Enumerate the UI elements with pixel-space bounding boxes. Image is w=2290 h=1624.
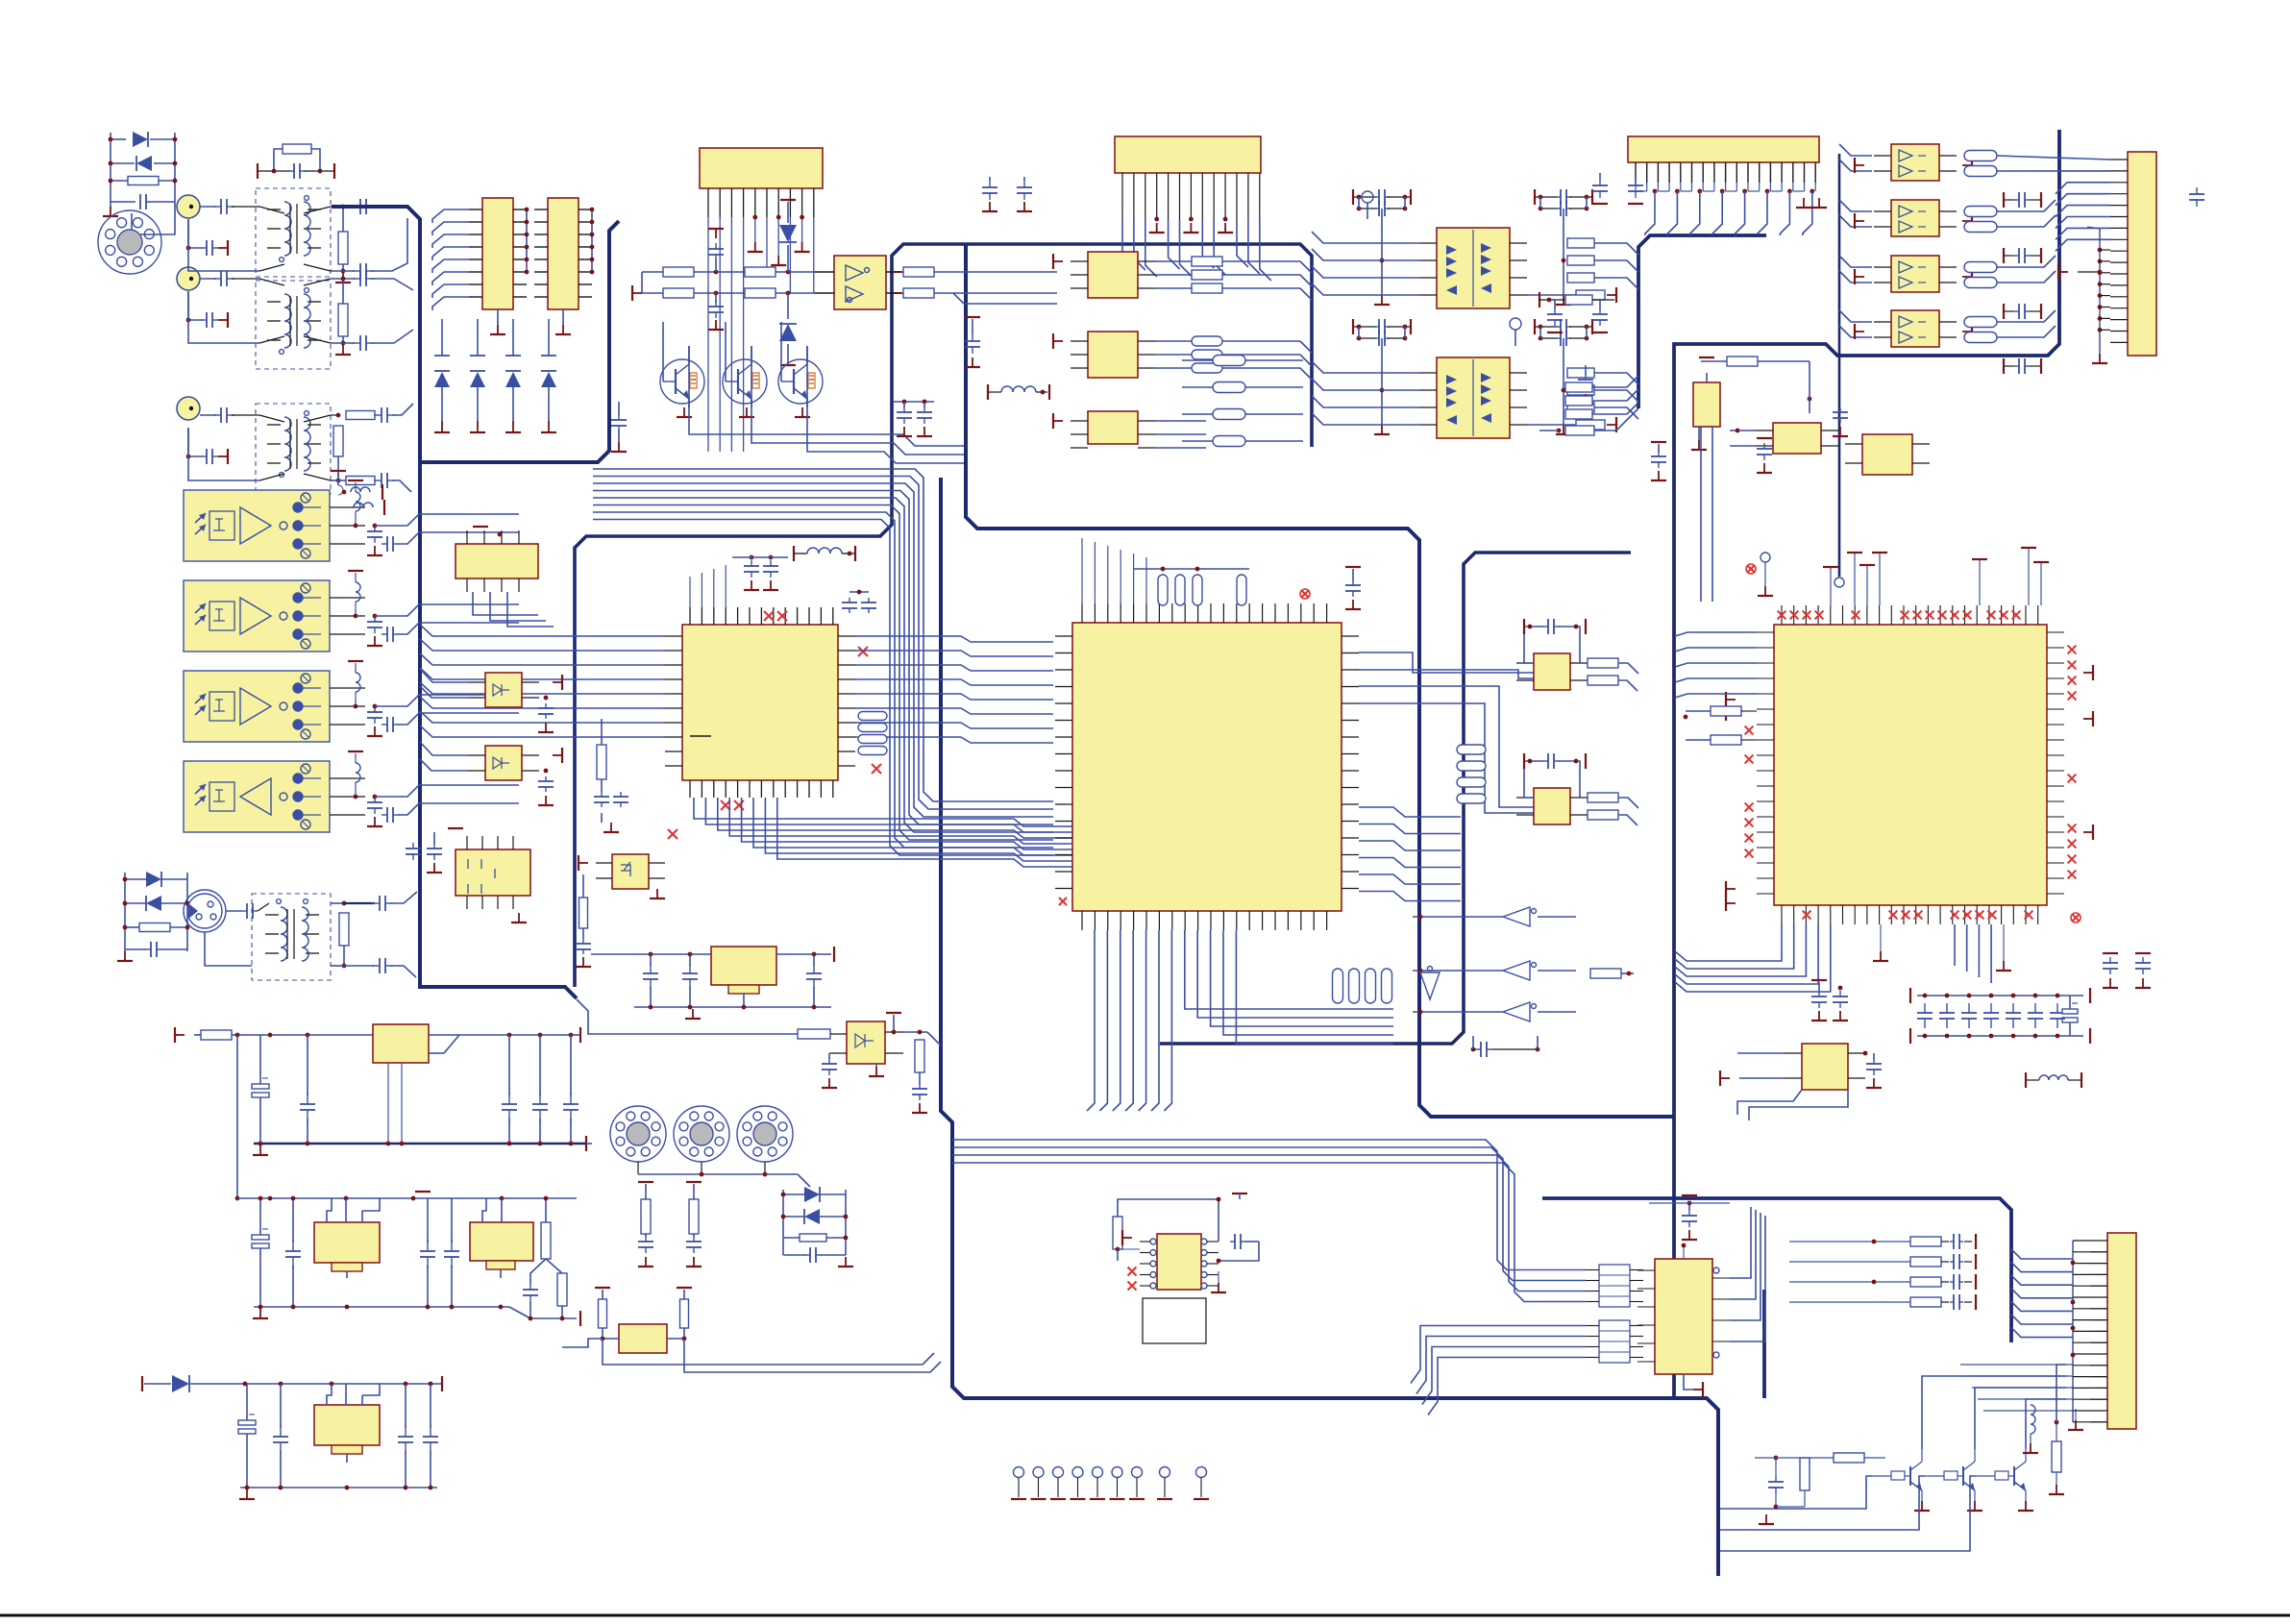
capacitor C13 C14 [732, 555, 788, 590]
optocoupler U16 [1419, 228, 1527, 308]
diode D2 [111, 156, 175, 171]
resistor R36 R37 [1964, 317, 1997, 343]
no-connect IC3-right [2068, 646, 2093, 879]
connector J7 DIN [674, 1106, 729, 1174]
IC U7 TL431 [579, 854, 665, 898]
no-connect IC2 [1059, 589, 1310, 905]
wire RX0 out [330, 507, 365, 544]
capacitor C19 [576, 939, 591, 967]
resistor network RN2 [1586, 1320, 1643, 1363]
inductor L4 L5 [331, 471, 384, 515]
capacitor C35 C36 [1592, 173, 1643, 204]
wire U38 in [420, 669, 468, 698]
wire rbox verticals [1701, 426, 1712, 602]
no-connect IC3-top [1778, 611, 2021, 620]
wire U17 feeds [1374, 338, 1571, 434]
wire IC3-left [1675, 632, 1757, 745]
transformer T3 [188, 404, 331, 494]
wire IC1-top stubs [690, 565, 726, 607]
IC U9 DAC-filter [1516, 619, 1638, 691]
capacitor C24 [965, 317, 980, 367]
resistor R45 [2049, 1420, 2064, 1494]
wire U16-left [1312, 232, 1419, 295]
capacitor Cq1 [2004, 248, 2041, 263]
ground CN6 [2068, 1409, 2083, 1430]
wire gnd rail2 [253, 1305, 580, 1326]
connector J6 DIN [610, 1106, 666, 1174]
resistor Rsec3 [331, 404, 413, 492]
border bottom [0, 1614, 2290, 1617]
capacitor cluster U16L [1353, 189, 1411, 216]
IC U45 osc [595, 1288, 941, 1372]
inductor LRX2 [348, 661, 363, 708]
connector CN6 [2090, 1233, 2136, 1429]
wire CN5 lower feeds [2058, 227, 2110, 363]
wire gnd rail U46 [634, 1005, 831, 1019]
wire bus mid-box-C [1160, 553, 1631, 1044]
capacitor C1 [111, 194, 175, 209]
wire bundle IC1-IC2 [855, 636, 1053, 743]
transistor Q6 [1976, 1449, 2033, 1511]
resistor Rsec2 [331, 271, 413, 355]
connector J3 RCA [177, 267, 200, 290]
capacitor Cq2 [2004, 304, 2041, 319]
wire bus right-box-top [1674, 130, 2059, 1398]
resistor R16 [597, 719, 606, 792]
wire bus opamp-feed [1834, 144, 1872, 587]
resistor R20 [1590, 969, 1634, 978]
resistor R55 R56 [638, 1182, 702, 1267]
inductor LRX3 [348, 751, 363, 799]
ground ladder [103, 207, 118, 216]
wire gnd rail1 [253, 1136, 592, 1155]
wire IC2-top [1082, 538, 1146, 603]
resistor RP4 pack [1333, 969, 1392, 1003]
inductor L2 [2026, 1072, 2081, 1088]
capacitor C60 electrolytic [252, 1196, 269, 1307]
wire bundle IC2-bottom [1087, 930, 1393, 1111]
capacitor Cq3 [2004, 358, 2041, 374]
capacitor Cin2 [186, 271, 259, 328]
capacitor C20 [1345, 567, 1361, 609]
IC U44 regulator [314, 1384, 380, 1463]
wire bundle IC1-left [420, 625, 665, 737]
optical RX U36 [184, 761, 330, 832]
wire bus left-upright [420, 221, 619, 462]
IC U40 [448, 828, 530, 923]
resistor R14 R15 [894, 267, 964, 304]
wire opamp-to-CN5 [1997, 156, 2110, 337]
wire RX3 out [330, 778, 365, 815]
buffer U15 [1420, 967, 1440, 1000]
wire TL feed resistor R57 [577, 999, 847, 1039]
IC U21 src [1053, 411, 1155, 448]
IC U8 SRC [1055, 603, 1359, 930]
capacitor C22 C23 [982, 177, 1032, 211]
capacitor C32 [1757, 438, 1772, 473]
IC U43 regulator [470, 1198, 533, 1278]
transformer T2 [188, 279, 331, 369]
diode D3-D6 clamp [434, 319, 556, 432]
capacitor CRX3 [367, 785, 519, 826]
wire CN2 fanout [708, 215, 814, 452]
capacitor C12 [611, 402, 627, 452]
wire bus right-top-feed [1638, 235, 1766, 408]
IC U38 opto [468, 673, 562, 732]
IC U10 DAC-filter [1516, 753, 1638, 825]
connector J8 DIN [737, 1106, 793, 1174]
wire bundle IC1-bottom [694, 798, 1115, 867]
resistor Rtop capacitor Ctop [258, 144, 334, 179]
wire bus left-main [332, 207, 577, 998]
capacitor CRX0 [367, 514, 519, 555]
optical RX U34 [184, 580, 330, 652]
resistor RP3 pack [1457, 745, 1486, 803]
wire to DIN [132, 207, 175, 234]
optical RX U33 [184, 490, 330, 561]
capacitor C10 C11 [708, 229, 724, 330]
diode D11 [142, 1375, 442, 1392]
wire IC2-DAC [1359, 652, 1534, 813]
IC U39 opto [468, 746, 562, 805]
wire chip joins [525, 208, 595, 275]
wire bus mid-vert [941, 478, 1718, 1576]
resistor RP1 pack [858, 712, 887, 755]
resistor R30 R31 [1964, 151, 1997, 177]
IC U29 MCU [1757, 605, 2064, 924]
wire Q collectors [1922, 1365, 2066, 1449]
resistor R53 R54 [523, 1196, 567, 1318]
IC U20 src [1053, 332, 1155, 378]
resistor Rsec1 [331, 199, 407, 283]
resistor RC rows R40-R43 [1789, 1234, 1976, 1310]
resistor RP2 pack [1134, 567, 1249, 605]
IC U41 regulator [373, 1024, 580, 1144]
wire DIN common [638, 1172, 810, 1187]
connector CN4 [1628, 136, 1819, 191]
capacitor C31 [1651, 442, 1666, 480]
capacitor C21 [1471, 1036, 1540, 1057]
circle TP2 [1510, 318, 1521, 346]
capacitor Cq0 [2004, 192, 2041, 208]
IC U37 [456, 527, 538, 592]
transformer T4 [252, 894, 331, 980]
wire CN4 fanout [1636, 189, 1827, 235]
wire IC3-top stubs [1758, 548, 2049, 605]
capacitor C65-C67 [273, 1384, 438, 1488]
resistor group U17R [1527, 368, 1638, 432]
junctions ladder [109, 137, 178, 184]
resistor R17 [579, 874, 588, 939]
transistor Q1 [660, 322, 704, 417]
testpoints TP3-TP11 [1011, 1467, 1209, 1500]
capacitor bank C40-C47 [1910, 988, 2090, 1044]
wire bus bottom-right-box [1542, 1198, 2011, 1342]
inductor L6 [988, 384, 1049, 400]
IC U6 DSP [665, 607, 855, 798]
wire bus mid-box-B [966, 244, 1675, 1117]
wire U17-left [1312, 361, 1419, 425]
resistor network RN1 [1586, 1265, 1643, 1307]
inductor LRX1 [348, 571, 363, 618]
IC U26 [1730, 423, 1838, 454]
inductor L1 [794, 546, 855, 561]
wire opamp3 in [0, 0, 1, 1]
connector CN2 [700, 148, 823, 217]
transistor Q4 [1872, 1449, 1930, 1511]
resistor group U16R [1527, 238, 1638, 303]
wire RX2 out [330, 688, 365, 725]
capacitor C30 [2189, 187, 2204, 207]
IC U3 line-driver [534, 198, 592, 334]
resistor RP5 pack [1182, 356, 1303, 447]
capacitor C33 C34 [2103, 953, 2151, 988]
wire CN6 feeds [1960, 1241, 2107, 1422]
capacitor C17 C18 [594, 792, 628, 832]
capacitor C15 C16 [842, 590, 876, 613]
circle TP1 [1362, 191, 1373, 219]
capacitor CRX1 [367, 604, 519, 646]
wire driver-to-src [953, 272, 1057, 304]
capacitor C55 electrolytic [252, 1035, 269, 1144]
transistor Q5 [1925, 1449, 1982, 1511]
IC U27 [1833, 407, 1930, 475]
transistor Q3 [778, 322, 823, 417]
resistor R34 R35 [1964, 262, 1997, 288]
capacitor C56-C59 [300, 1035, 579, 1144]
no-connect IC3-bottom [1746, 564, 2081, 923]
wire U39 in [420, 742, 468, 771]
op-amp U25 [1855, 310, 1972, 347]
wire bus bottom-right-edge [1762, 1290, 1766, 1398]
capacitor C53 C54 [406, 832, 442, 873]
diode D1 [111, 132, 175, 147]
wire ladder rails [111, 133, 175, 207]
wire bus mid-box-A [575, 244, 1312, 987]
IC U2 line-driver [469, 198, 527, 334]
resistor R51 [331, 892, 417, 977]
wire gnd rail3 [239, 1486, 437, 1499]
capacitor Cin1 [186, 199, 259, 256]
wire U16 feeds [1374, 209, 1571, 305]
connector J5 XLR [184, 890, 226, 932]
connector J2 RCA [177, 195, 200, 218]
resistor RP6 [1539, 376, 1638, 435]
resistor R58 capacitor C71 [903, 1030, 941, 1113]
capacitor C72 C73 [894, 400, 934, 436]
capacitor CRX2 [367, 695, 519, 736]
wire U19 row [1155, 257, 1312, 300]
wire bundle IC2-right [1359, 807, 1461, 901]
wire U31 right [1730, 1207, 1765, 1341]
resistor R46 capacitor C50 [1755, 1453, 1885, 1524]
wire opamp1 in [0, 0, 1, 1]
transformer T1 [188, 188, 331, 277]
IC U47 opto [822, 1013, 903, 1088]
wire CN3 fanout [1122, 217, 1271, 281]
resistor R34 capacitor C37 C38 [1539, 292, 1614, 332]
capacitor C48 C49 [1811, 980, 1848, 1021]
capacitor C61-C63 [285, 1196, 459, 1307]
resistor R50 capacitor C52 [1113, 1193, 1259, 1292]
op-amp U24 [1855, 256, 1972, 292]
IC U31 SPDIF [1637, 1243, 1730, 1397]
capacitor Cin3 [186, 407, 259, 464]
inductor LRX0 [348, 480, 363, 528]
wire U20 row [1155, 336, 1312, 380]
IC U32 osc [1140, 1234, 1219, 1290]
buffer U12 [1413, 907, 1576, 926]
wire bundle topC [593, 469, 1053, 855]
op-amp U22 [1855, 144, 1972, 181]
transistor Q2 [723, 322, 767, 417]
wire Q-outputs [689, 346, 964, 463]
wire bundle chipA-left [432, 209, 469, 310]
IC U5 buffer [815, 256, 903, 309]
IC U46 regulator [591, 947, 834, 1007]
connector J1 DIN [98, 210, 161, 274]
wire RX1 out [330, 598, 365, 634]
op-amp U23 [1855, 200, 1972, 236]
optocoupler U17 [1419, 357, 1527, 438]
white box U32 alt [1143, 1298, 1206, 1343]
buffer U14 [1413, 1002, 1576, 1021]
wire osc-out [562, 1339, 603, 1347]
wire rail2 [237, 1192, 577, 1200]
resistor R32 R33 [1964, 207, 1997, 233]
wire opamp0 in [0, 0, 1, 1]
diode D9 D10 ladder2 [117, 872, 189, 961]
wire XLR out [205, 903, 269, 966]
capacitor cluster U16R [1535, 189, 1592, 216]
connector CN5 [2110, 152, 2156, 356]
capacitor C25 [1578, 365, 1593, 404]
resistor R10-R13 [632, 267, 815, 301]
buffer U13 [1413, 961, 1576, 980]
IC U42 regulator [314, 1198, 380, 1278]
connector CN3 [1115, 136, 1261, 219]
diode D7 D8 clamp [779, 200, 797, 365]
wire U21 row [1155, 421, 1206, 448]
no-connect X IC1 [668, 611, 881, 839]
diode D12 D13 ladder3 [781, 1187, 853, 1267]
wire vin drop [235, 1035, 240, 1200]
IC U19 src [1053, 252, 1155, 298]
resistor R1 [111, 177, 175, 185]
wire opamp2 in [0, 0, 1, 1]
IC U30 [1720, 1044, 1882, 1120]
resistor R52 [175, 1027, 373, 1043]
optical RX U35 [184, 671, 330, 742]
wire U37 down [473, 592, 554, 627]
capacitor cluster U17L [1353, 319, 1411, 346]
capacitor cluster U17R [1535, 319, 1592, 346]
wire RN feeds [952, 1140, 1586, 1415]
capacitor C51 [1649, 1195, 1730, 1240]
wire Q bases [1720, 1476, 1976, 1551]
inductor L3 [2023, 1405, 2038, 1453]
wire IC3-bottom [1675, 924, 2011, 992]
no-connect IC3-left [1726, 692, 1753, 911]
connector J4 RCA [177, 397, 200, 420]
capacitor C64 electrolytic [238, 1384, 256, 1488]
IC U28 reg [1691, 357, 1811, 450]
capacitor C68-C70 [643, 954, 822, 1007]
